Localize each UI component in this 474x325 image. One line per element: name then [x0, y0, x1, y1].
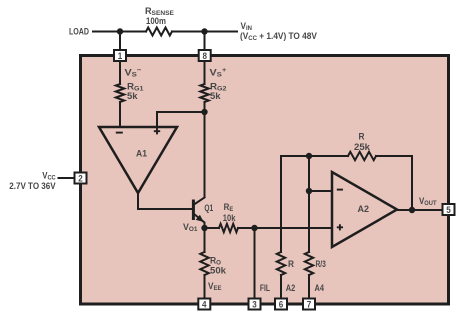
svg-text:Q1: Q1 [204, 203, 213, 213]
svg-text:FIL: FIL [260, 283, 270, 293]
svg-text:5k: 5k [210, 91, 221, 101]
svg-text:A4: A4 [315, 282, 325, 293]
svg-text:50k: 50k [210, 265, 227, 276]
svg-text:8: 8 [202, 50, 207, 61]
svg-text:LOAD: LOAD [69, 27, 89, 37]
svg-text:A2: A2 [286, 282, 296, 293]
svg-text:7: 7 [307, 299, 312, 310]
svg-text:5: 5 [446, 204, 451, 215]
svg-text:25k: 25k [354, 141, 371, 152]
svg-text:4: 4 [202, 299, 207, 310]
svg-text:R: R [288, 259, 295, 269]
svg-text:A2: A2 [358, 204, 369, 214]
svg-text:1: 1 [118, 50, 123, 61]
svg-text:3: 3 [252, 299, 257, 310]
svg-text:R/3: R/3 [316, 259, 327, 269]
svg-text:6: 6 [279, 299, 284, 310]
svg-text:5k: 5k [127, 91, 138, 101]
svg-text:R: R [359, 131, 366, 141]
svg-text:2.7V TO 36V: 2.7V TO 36V [9, 180, 56, 191]
svg-text:100m: 100m [146, 15, 166, 26]
svg-text:10k: 10k [223, 212, 236, 223]
svg-text:A1: A1 [136, 148, 147, 158]
svg-text:2: 2 [78, 173, 83, 184]
